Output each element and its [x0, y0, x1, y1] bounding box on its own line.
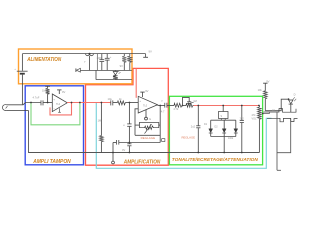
feedback network R6 C6 — [135, 123, 159, 134]
wire sleeve return — [277, 119, 291, 153]
svg-text:0V: 0V — [122, 148, 125, 152]
svg-text:D2: D2 — [215, 126, 219, 129]
svg-text:ALIMENTATION: ALIMENTATION — [26, 57, 61, 63]
LED D1 — [113, 64, 123, 76]
svg-text:−: − — [53, 106, 55, 110]
capacitor C4 — [108, 97, 118, 106]
switch S1 on top rail — [84, 53, 93, 64]
svg-text:9V: 9V — [62, 90, 65, 94]
wire bias drop — [98, 102, 104, 153]
svg-text:+: + — [14, 67, 16, 71]
capacitor C3 input — [33, 96, 53, 106]
wire ground return — [29, 111, 260, 153]
svg-text:2n2: 2n2 — [240, 117, 245, 120]
op-amp U2 — [138, 96, 157, 113]
svg-text:4.7: 4.7 — [161, 109, 165, 113]
svg-text:TL0: TL0 — [56, 103, 61, 106]
power flag bias — [42, 86, 50, 92]
wire vertical aux — [96, 54, 98, 70]
capacitor C5 shunt — [123, 124, 132, 143]
svg-text:S: S — [221, 115, 223, 118]
svg-text:AMPLI TAMPON: AMPLI TAMPON — [32, 159, 71, 165]
resistor R10 LED — [258, 88, 268, 111]
power flag U1 V+ — [57, 90, 65, 94]
net buffer input (green) — [31, 103, 80, 125]
net +9V to U2 (red) — [135, 68, 137, 97]
resistor R1 under LED — [113, 75, 118, 79]
svg-text:TL0: TL0 — [143, 104, 148, 107]
svg-text:9V: 9V — [149, 50, 153, 54]
wire mid rail — [80, 70, 131, 72]
svg-text:D1: D1 — [204, 123, 208, 126]
ground G1 — [112, 143, 126, 164]
svg-text:REGLAGE: REGLAGE — [182, 137, 196, 140]
region box ALIMENTATION (orange) — [19, 49, 133, 84]
resistor R2 — [122, 54, 130, 70]
svg-text:REGLAGE: REGLAGE — [141, 137, 156, 140]
region box AMPLI TAMPON (blue) — [25, 86, 83, 165]
wire LED loop — [265, 98, 289, 110]
net tone (red) — [194, 105, 259, 107]
power pin U2 V- circle — [145, 110, 151, 121]
power flag LED supply — [263, 80, 270, 91]
op-amp U1 — [52, 94, 67, 112]
wire feedback bottom row — [135, 125, 160, 135]
arrow output to circuit — [76, 68, 81, 72]
wire gain cap row — [113, 140, 160, 153]
label AMPLI TAMPON — [32, 159, 71, 165]
svg-text:1M: 1M — [98, 120, 101, 123]
potentiometer P1 volume — [252, 105, 270, 153]
svg-text:9V: 9V — [266, 80, 269, 84]
svg-text:D: D — [294, 92, 296, 96]
jack J2 output tip — [264, 109, 297, 113]
net buffer feedback (red) — [50, 103, 72, 115]
LED D4 indicator — [289, 92, 297, 112]
wire shunt branch — [128, 103, 130, 124]
power flag U2 V+ — [140, 89, 148, 97]
svg-text:−: − — [139, 107, 141, 111]
svg-text:+: + — [53, 97, 55, 101]
wire jack drop — [277, 112, 281, 170]
label TONALITE — [172, 157, 259, 162]
diode pair D2 D3 clipping — [204, 105, 238, 154]
svg-text:+: + — [139, 99, 141, 103]
wire regulator drop — [89, 56, 91, 70]
region box AMPLIFICATION (red) — [86, 68, 169, 165]
svg-text:10u: 10u — [108, 97, 113, 101]
capacitor C2 — [105, 54, 112, 70]
svg-text:G: G — [149, 117, 151, 121]
resistor R5 — [118, 97, 139, 105]
wire U2 output — [158, 105, 166, 143]
jack J2 sleeve — [267, 118, 298, 122]
svg-text:9V: 9V — [145, 89, 148, 93]
capacitor C10 — [240, 105, 245, 154]
capacitor C1 — [97, 54, 105, 70]
resistor R7 — [173, 103, 186, 111]
svg-text:100k: 100k — [228, 137, 234, 140]
wire U2 inverting input — [135, 109, 138, 136]
svg-text:10k: 10k — [258, 88, 263, 92]
svg-text:2u2: 2u2 — [191, 125, 196, 129]
wire +9V top rail — [22, 53, 145, 55]
capacitor C8 parallel loop — [183, 97, 194, 105]
label reglage du gain (red) — [141, 137, 165, 141]
battery BT1 — [14, 54, 27, 105]
svg-text:4.7k: 4.7k — [173, 107, 179, 111]
resistor R3 — [128, 54, 132, 70]
wire 0V bottom rail — [96, 70, 132, 79]
region box TONALITE/ECRETAGE/ATTENUATION (green) — [169, 96, 262, 165]
label AMPLIFICATION — [123, 159, 161, 165]
label ALIMENTATION — [26, 57, 61, 63]
capacitor C9 — [182, 105, 201, 154]
resistor R4 bias — [46, 88, 50, 103]
resistor R8 — [186, 99, 197, 107]
svg-text:9V: 9V — [120, 64, 123, 68]
net attenuation (cyan) — [96, 103, 271, 169]
svg-text:TONALITE/ECRETAGE/ATTENUATION: TONALITE/ECRETAGE/ATTENUATION — [172, 157, 259, 162]
wire U1 output — [30, 102, 111, 104]
svg-text:1M: 1M — [193, 99, 197, 103]
power flag +9V at node B1 — [143, 50, 152, 58]
svg-text:AMPLIFICATION: AMPLIFICATION — [123, 159, 161, 165]
svg-text:4.7uF: 4.7uF — [33, 96, 40, 100]
capacitor C7 output — [161, 100, 174, 108]
svg-text:VOL: VOL — [252, 117, 258, 120]
input jack J1 — [3, 103, 41, 111]
